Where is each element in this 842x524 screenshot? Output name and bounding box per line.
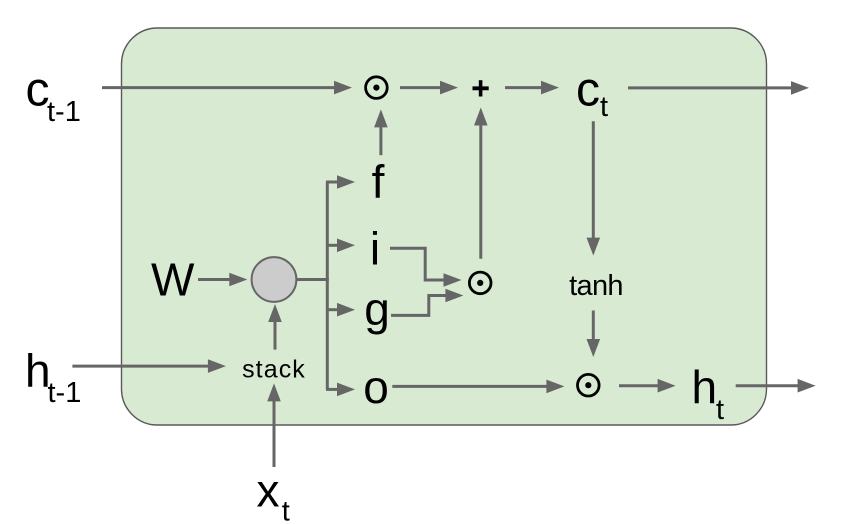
- wire c_t down to tanh: [587, 121, 601, 255]
- svg-text:t-1: t-1: [47, 96, 81, 128]
- svg-text:c: c: [576, 64, 600, 117]
- bracket arm to o: [326, 383, 355, 397]
- wire odot2 to plus: [474, 108, 488, 259]
- wire o to odot3: [392, 380, 564, 394]
- gate o label: [363, 361, 389, 413]
- svg-text:t-1: t-1: [48, 377, 82, 409]
- wire plus to c_t: [505, 81, 559, 95]
- node c_t label: [576, 64, 608, 124]
- multiply node odot3: [578, 374, 600, 396]
- svg-text:g: g: [364, 283, 390, 335]
- wire W to stack circle: [198, 273, 247, 287]
- wire h_t to output right: [736, 379, 816, 393]
- node x_t label: [257, 464, 290, 524]
- wire g to odot2: [391, 289, 463, 316]
- svg-text:tanh: tanh: [569, 270, 623, 302]
- LSTM cell body box: [122, 28, 767, 425]
- multiply node odot1: [366, 77, 388, 99]
- svg-text:h: h: [692, 361, 718, 413]
- stack circle node: [252, 257, 297, 302]
- node c_t-1 label: [26, 64, 81, 129]
- multiply node odot2: [469, 272, 491, 294]
- wire h_t-1 to stack: [72, 359, 226, 373]
- svg-text:t: t: [716, 394, 724, 426]
- add node plus: [473, 80, 489, 96]
- bracket arm to g: [326, 303, 355, 317]
- wire c_t-1 to odot1: [102, 81, 352, 95]
- bracket arm to f: [326, 175, 355, 189]
- wire W-circle to bracket: [295, 278, 329, 281]
- wire odot3 to h_t: [619, 379, 676, 393]
- svg-text:f: f: [372, 155, 385, 207]
- wire i to odot2: [390, 248, 462, 286]
- node W label: [151, 254, 195, 306]
- svg-text:o: o: [363, 361, 389, 413]
- wire f to odot1: [374, 109, 388, 155]
- tanh label: [569, 270, 623, 302]
- wire c_t to output right: [628, 81, 809, 95]
- svg-text:t: t: [282, 496, 290, 524]
- gate g label: [364, 283, 390, 335]
- wire stack to circle: [268, 304, 282, 350]
- svg-text:c: c: [26, 64, 50, 117]
- svg-text:i: i: [370, 223, 380, 275]
- wire tanh to odot3: [587, 311, 601, 358]
- wire odot1 to plus: [400, 81, 458, 95]
- node h_t-1 label: [25, 345, 81, 410]
- bracket spine: [326, 182, 329, 389]
- svg-text:W: W: [151, 254, 195, 306]
- stack label: [242, 355, 306, 383]
- gate f label: [372, 155, 385, 207]
- bracket arm to i: [326, 239, 355, 253]
- gate i label: [370, 223, 380, 275]
- svg-text:stack: stack: [242, 355, 306, 383]
- wire x_t to stack: [267, 383, 281, 467]
- svg-text:x: x: [257, 464, 280, 516]
- svg-text:t: t: [600, 91, 608, 123]
- node h_t label: [692, 361, 725, 426]
